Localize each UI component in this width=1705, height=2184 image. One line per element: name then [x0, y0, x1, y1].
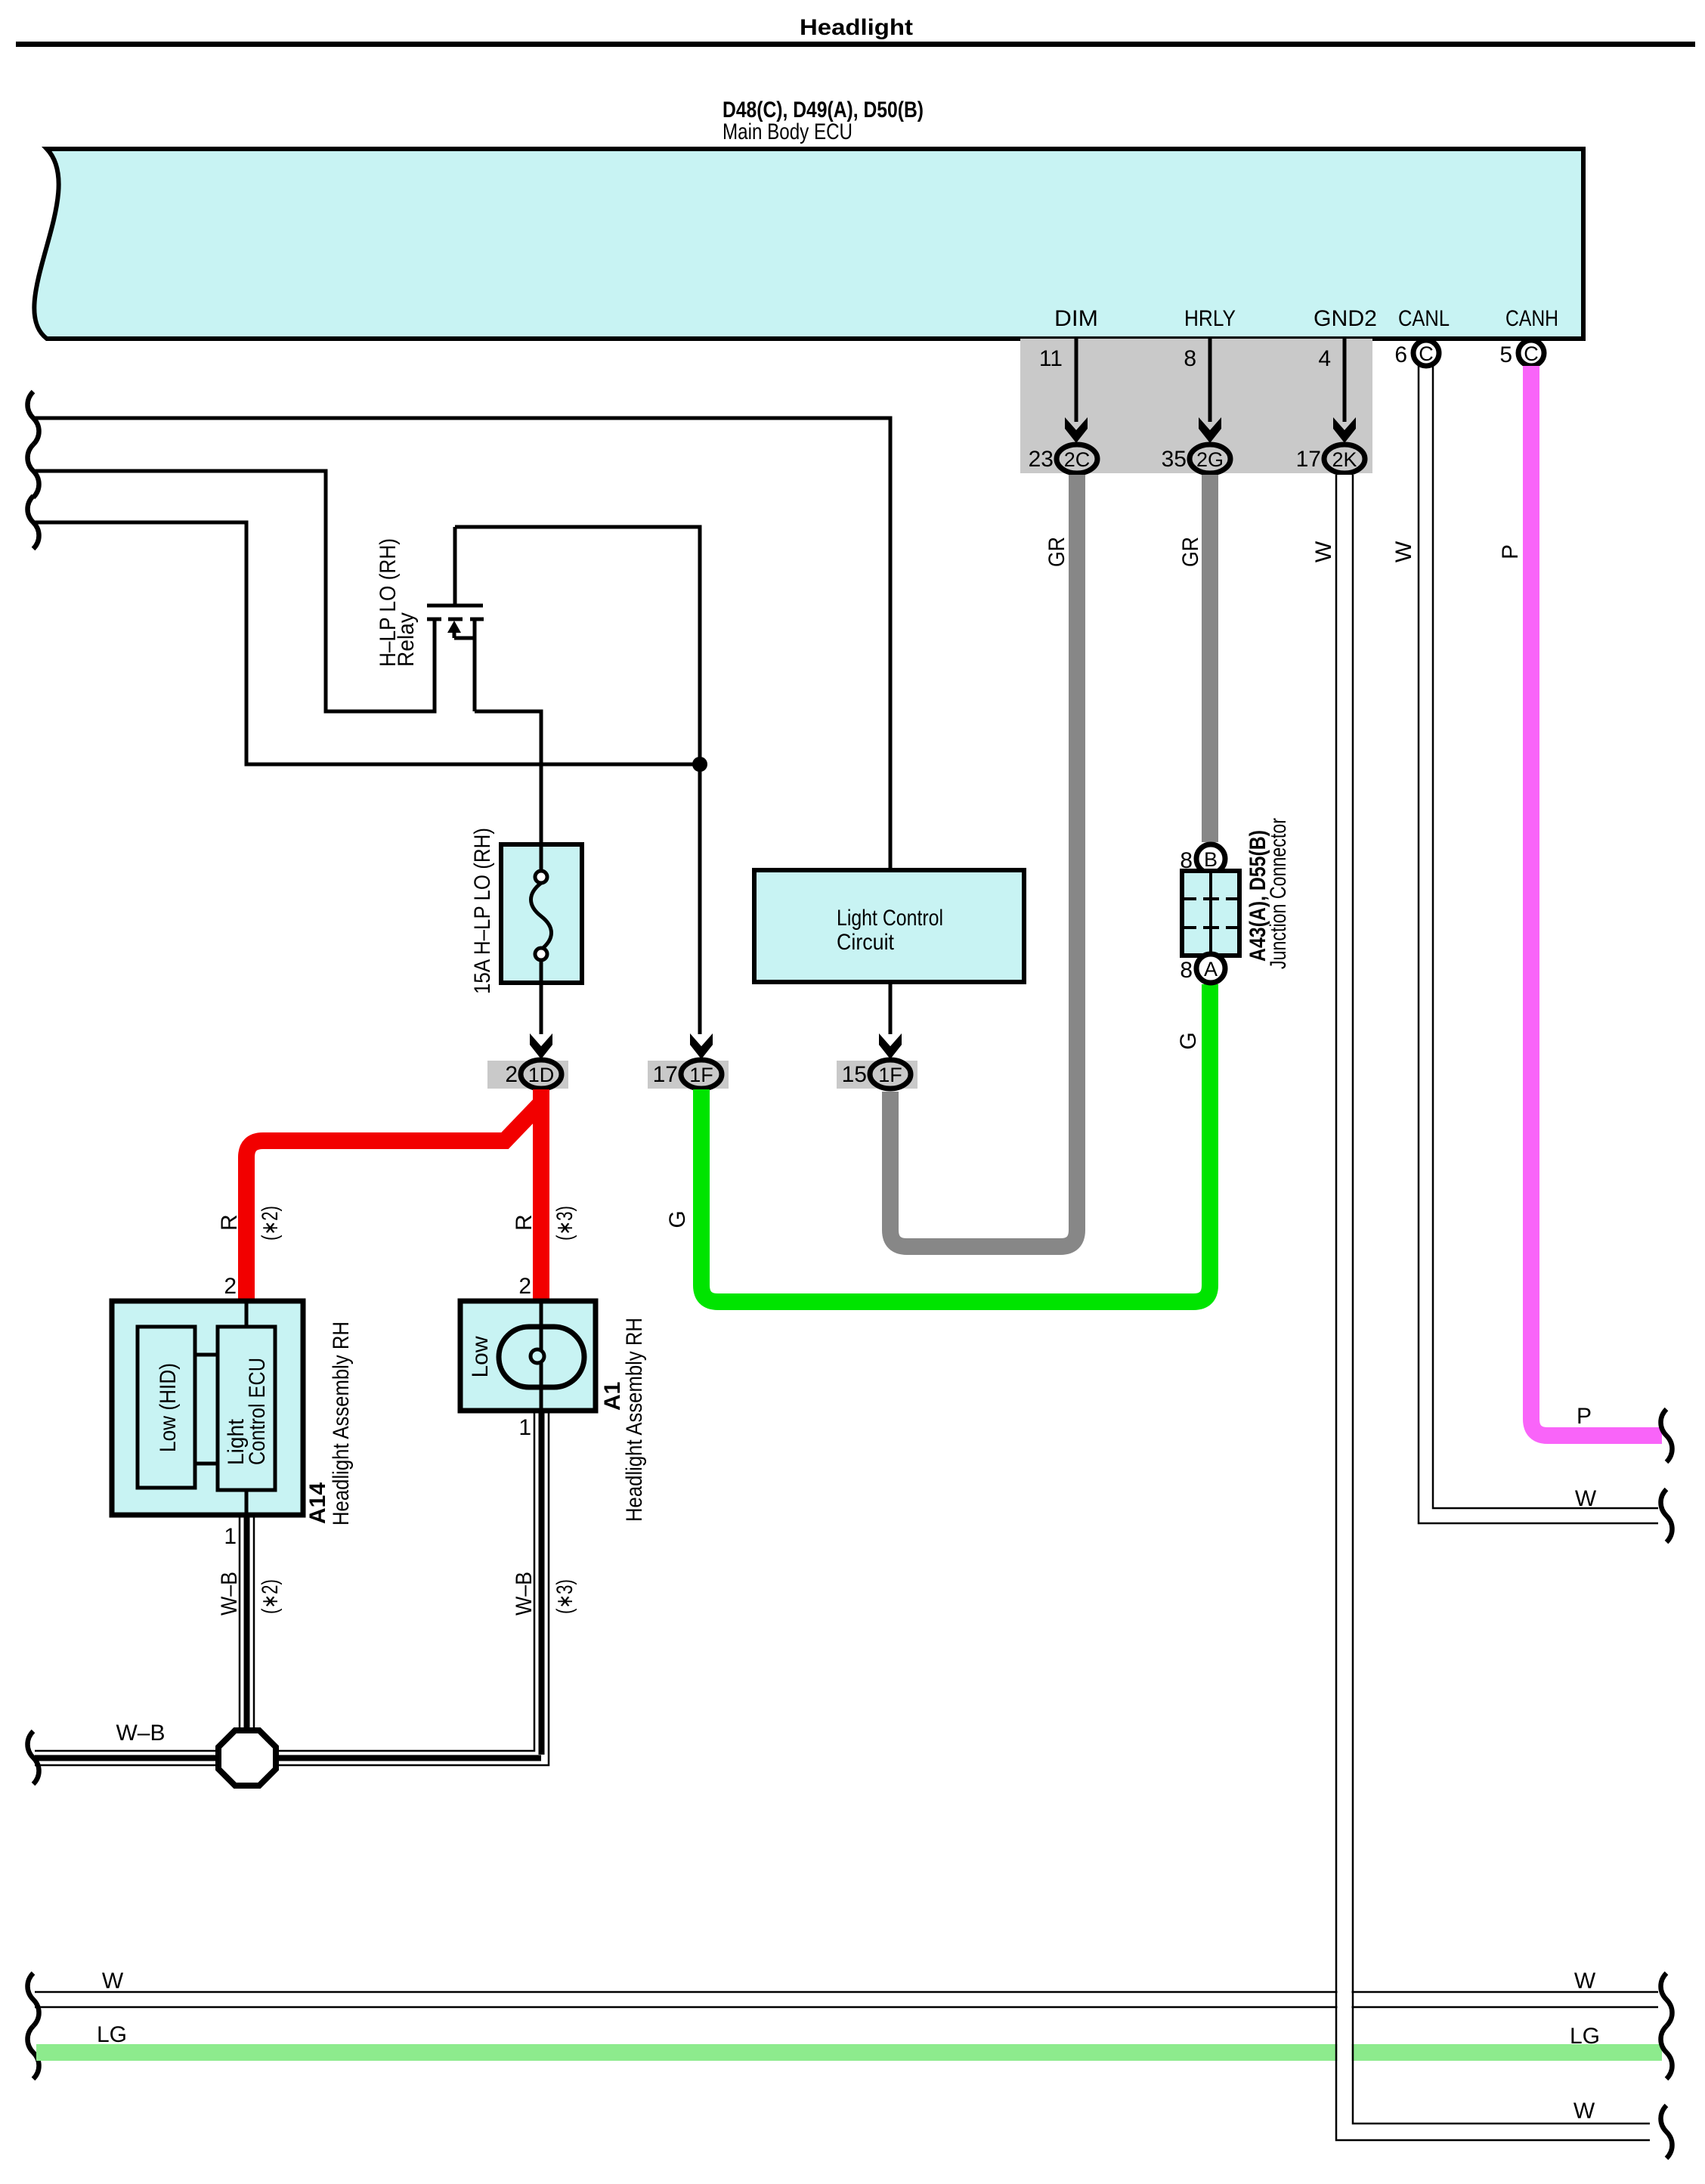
- wire LCC bottom to 15-1F: [889, 982, 893, 1034]
- svg-text:A14: A14: [305, 1482, 330, 1524]
- arrow into 2G: [1199, 417, 1221, 443]
- svg-text:Junction Connector: Junction Connector: [1266, 818, 1291, 969]
- wire GR from 2C down to U turn toward 15-1F: [890, 475, 1077, 1247]
- svg-text:Headlight Assembly RH: Headlight Assembly RH: [622, 1318, 647, 1522]
- svg-text:Relay: Relay: [394, 612, 419, 667]
- wire W-B from A14 pin1 down to ground octagon: [240, 1515, 254, 1732]
- wire fuse bottom to 1D: [540, 983, 543, 1034]
- svg-text:W–B: W–B: [116, 1721, 165, 1746]
- svg-text:W: W: [1573, 2099, 1595, 2124]
- wire B1 to light control circuit: [35, 418, 890, 870]
- svg-text:17: 17: [1296, 447, 1321, 472]
- svg-text:G: G: [665, 1210, 690, 1228]
- svg-text:CANH: CANH: [1505, 306, 1558, 331]
- svg-text:8: 8: [1184, 346, 1196, 371]
- svg-text:1D: 1D: [528, 1064, 555, 1086]
- svg-text:W: W: [1575, 1486, 1597, 1511]
- svg-text:1F: 1F: [689, 1064, 713, 1086]
- connector C pin 5 (CANH): [1499, 340, 1544, 367]
- svg-text:P: P: [1498, 544, 1523, 559]
- junction dot: [692, 757, 707, 772]
- break symbol W-B left: [28, 1731, 39, 1784]
- wire from relay drain to 17-1F: [455, 527, 700, 1034]
- arrow into 2C: [1065, 417, 1088, 443]
- svg-text:2: 2: [224, 1274, 237, 1299]
- svg-text:2K: 2K: [1332, 448, 1357, 471]
- label A1 Headlight Assembly RH: [600, 1318, 647, 1522]
- arrow into 1D: [530, 1033, 552, 1059]
- junction connector labels: [1245, 818, 1291, 969]
- break symbol LG right: [1661, 2026, 1673, 2079]
- svg-text:GR: GR: [1044, 537, 1069, 567]
- wire W-B from A1 pin1 down to corner and left to octagon: [277, 1411, 549, 1765]
- label R (*3): [512, 1206, 577, 1241]
- connector 1F pin 15: [842, 1060, 911, 1089]
- svg-text:11: 11: [1039, 346, 1063, 371]
- svg-text:2: 2: [518, 1274, 531, 1299]
- svg-text:6: 6: [1394, 342, 1407, 367]
- wire GR from 2G down to junction connector B: [1202, 475, 1218, 842]
- svg-text:B: B: [1204, 848, 1218, 871]
- svg-text:Low: Low: [468, 1336, 493, 1377]
- break symbol B1 left: [28, 392, 39, 445]
- svg-text:Headlight Assembly RH: Headlight Assembly RH: [329, 1321, 354, 1526]
- wire B2 to relay coil: [35, 471, 435, 711]
- wire R red from 1D to A1 pin 2: [533, 1089, 549, 1301]
- wire LG bottom horizontal: [36, 2044, 1662, 2061]
- svg-text:A: A: [1204, 958, 1218, 980]
- svg-text:G: G: [1176, 1032, 1201, 1049]
- svg-text:P: P: [1577, 1404, 1592, 1429]
- arrow into 15 1F: [879, 1033, 902, 1059]
- svg-text:Light Control: Light Control: [837, 906, 943, 931]
- svg-text:1: 1: [518, 1415, 531, 1440]
- junction connector A43(A), D55(B) box: [1182, 871, 1239, 956]
- svg-text:Control ECU: Control ECU: [245, 1358, 270, 1465]
- wire P from CANH down and right to break: [1531, 366, 1662, 1436]
- A14 headlight assembly box: [112, 1301, 303, 1515]
- svg-text:C: C: [1419, 342, 1434, 365]
- svg-text:W: W: [102, 1969, 124, 1993]
- svg-text:C: C: [1524, 342, 1539, 365]
- svg-text:1: 1: [224, 1524, 237, 1549]
- ground junction octagon: [218, 1730, 276, 1786]
- svg-text:2: 2: [505, 1062, 518, 1087]
- svg-text:LG: LG: [1570, 2024, 1600, 2049]
- svg-text:(∗2): (∗2): [258, 1206, 283, 1241]
- svg-text:LG: LG: [97, 2022, 127, 2047]
- svg-text:Circuit: Circuit: [837, 930, 895, 955]
- ECU label D48(C), D49(A), D50(B) / Main Body ECU: [723, 98, 924, 144]
- light control circuit box: [754, 870, 1024, 982]
- label R (*2): [217, 1206, 283, 1241]
- relay label H-LP LO (RH) / Relay: [376, 538, 419, 667]
- connector 2K pin 17: [1296, 445, 1365, 473]
- title Headlight: [16, 15, 1695, 47]
- break symbol B3 left: [28, 496, 39, 549]
- svg-text:W: W: [1391, 541, 1416, 562]
- svg-text:23: 23: [1029, 447, 1054, 472]
- wire W from CANL down and right to break (double line): [1419, 366, 1658, 1523]
- wire W bottom horizontal (double line): [35, 1992, 1658, 2007]
- label W-B (*2): [217, 1572, 283, 1616]
- svg-text:CANL: CANL: [1398, 306, 1450, 331]
- fuse 15A H-LP LO (RH) box: [501, 844, 582, 983]
- pin 8 stub wire from HRLY: [1184, 339, 1210, 422]
- svg-text:Headlight: Headlight: [800, 15, 913, 40]
- svg-text:R: R: [512, 1214, 537, 1231]
- connector 2G pin 35: [1162, 445, 1230, 473]
- svg-text:4: 4: [1318, 346, 1331, 371]
- svg-text:2G: 2G: [1196, 448, 1224, 471]
- pin 11 stub wire from DIM: [1039, 339, 1076, 422]
- svg-text:35: 35: [1162, 447, 1187, 472]
- svg-text:W–B: W–B: [217, 1572, 242, 1616]
- connector 2C pin 23: [1029, 445, 1097, 473]
- svg-text:1F: 1F: [878, 1064, 902, 1086]
- wire W-B from left break to octagon: [35, 1751, 219, 1765]
- break symbol W left bottom: [28, 1973, 39, 2026]
- svg-text:DIM: DIM: [1054, 306, 1098, 331]
- svg-text:17: 17: [653, 1062, 678, 1087]
- connector patch 17 1F: [648, 1061, 729, 1089]
- relay H-LP LO (RH) MOSFET symbol: [427, 527, 541, 844]
- connector patch 15 1F: [837, 1061, 917, 1089]
- wire W from 2K down and right to break (double line, drawn over crossings): [1336, 475, 1650, 2140]
- svg-text:5: 5: [1499, 342, 1512, 367]
- connector C pin 6 (CANL): [1394, 340, 1439, 367]
- svg-text:W: W: [1311, 541, 1336, 562]
- relay body arrow: [447, 621, 461, 633]
- break symbol CANL wire right: [1661, 1489, 1673, 1542]
- svg-text:Main Body ECU: Main Body ECU: [723, 119, 852, 144]
- junction connector A circle pin 8: [1180, 954, 1225, 983]
- svg-text:GND2: GND2: [1314, 306, 1377, 331]
- label A14 Headlight Assembly RH: [305, 1321, 354, 1526]
- pin 4 stub wire from GND2: [1318, 339, 1345, 422]
- break symbol W bottom right: [1661, 1973, 1673, 2026]
- junction connector B circle pin 8: [1180, 844, 1225, 873]
- connector 1F pin 17: [653, 1060, 722, 1089]
- connector patch 1D: [487, 1061, 568, 1089]
- break symbol W bottom-most right: [1661, 2105, 1673, 2158]
- break symbol P wire right: [1661, 1409, 1673, 1462]
- arrow into 2K: [1333, 417, 1356, 443]
- break symbol LG left: [28, 2026, 39, 2079]
- Main Body ECU box: [34, 149, 1583, 339]
- svg-text:(∗3): (∗3): [552, 1579, 577, 1614]
- svg-text:R: R: [217, 1214, 242, 1231]
- connector 1D pin 2: [505, 1060, 562, 1089]
- arrow into 17 1F: [690, 1033, 713, 1059]
- wire R red branch to A14 pin 2: [246, 1103, 541, 1301]
- connector shade region: [1020, 339, 1372, 473]
- svg-text:8: 8: [1180, 958, 1193, 983]
- break symbol B2 left: [28, 445, 39, 497]
- svg-text:GR: GR: [1178, 537, 1203, 567]
- svg-text:W–B: W–B: [512, 1572, 537, 1616]
- svg-text:15A H–LP LO (RH): 15A H–LP LO (RH): [470, 828, 495, 994]
- svg-text:(∗3): (∗3): [552, 1206, 577, 1241]
- wire G green from 17-1F down and to junction connector A: [701, 984, 1210, 1302]
- svg-text:HRLY: HRLY: [1184, 306, 1236, 331]
- svg-text:2C: 2C: [1064, 448, 1091, 471]
- A1 headlight assembly box: [460, 1301, 596, 1411]
- svg-text:Low (HID): Low (HID): [156, 1363, 181, 1452]
- svg-text:(∗2): (∗2): [258, 1579, 283, 1614]
- svg-text:15: 15: [842, 1062, 867, 1087]
- label W-B (*3): [512, 1572, 577, 1616]
- wire B3 to junction dot: [35, 522, 700, 764]
- svg-text:W: W: [1574, 1969, 1596, 1993]
